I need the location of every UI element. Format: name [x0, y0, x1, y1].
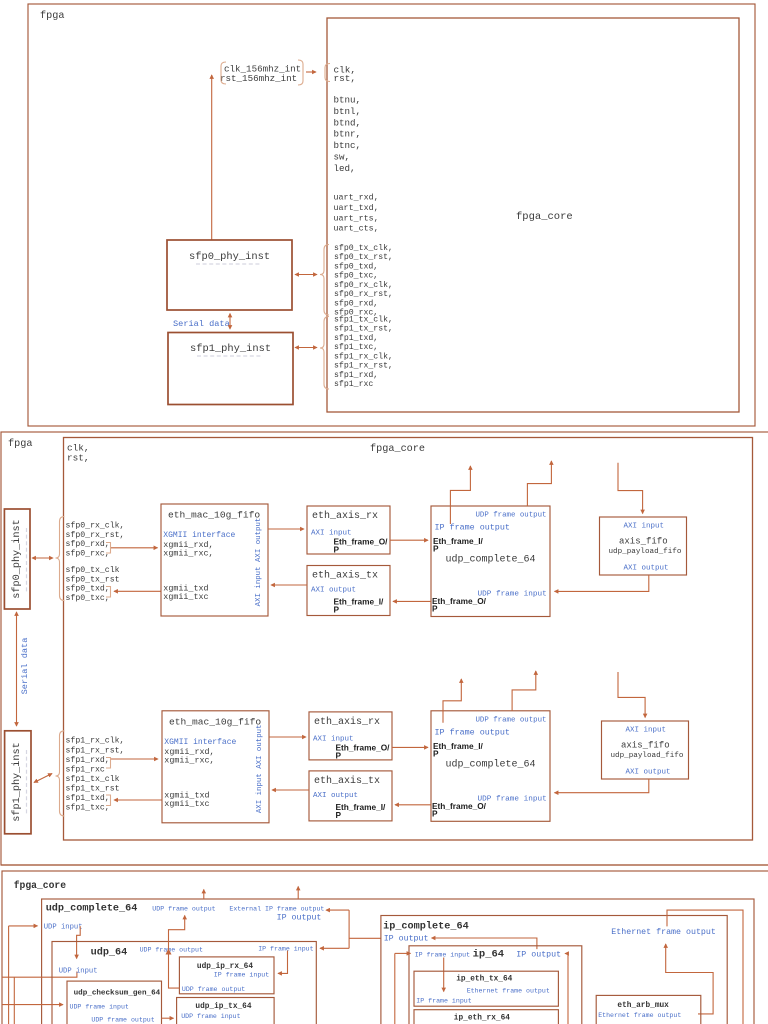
brace sfp0 signals (middle)	[56, 517, 65, 601]
svg-text:btnu,: btnu,	[334, 95, 362, 106]
wire to ip_complete IP output	[349, 937, 381, 939]
wire sfp0 rxd/rxc to eth_mac xgmii_rxd	[111, 547, 158, 549]
svg-text:Ethernet frame output: Ethernet frame output	[598, 1012, 681, 1019]
outer box fpga (top diagram)	[28, 4, 755, 426]
wire ip_64 IP output to ip_complete IP output	[432, 938, 537, 949]
wire into udp_64 IP frame input	[320, 947, 349, 949]
wire udp_complete UDP frame output up	[527, 461, 551, 506]
wire udp_complete2 UDP frame output up	[512, 671, 536, 711]
block udp_complete_64 (lower)	[431, 711, 550, 822]
svg-text:sfp1_rx_clk,: sfp1_rx_clk,	[334, 351, 393, 361]
svg-text:Ethernet frame output: Ethernet frame output	[467, 987, 550, 994]
svg-text:sfp0_tx_clk,: sfp0_tx_clk,	[334, 243, 393, 253]
block eth_axis_tx (upper)	[307, 566, 390, 616]
svg-text:sfp0_tx_rst: sfp0_tx_rst	[66, 574, 120, 584]
svg-text:udp_64: udp_64	[91, 947, 128, 959]
svg-text:udp_payload_fifo: udp_payload_fifo	[609, 548, 682, 556]
wire eth_mac2 xgmii_txd to sfp1 txd/txc	[114, 799, 162, 801]
wire axis_fifo2 AXI output to udp2 UDP frame input	[555, 779, 649, 793]
wire sfp0_phy_inst to sfp0 ports (double arrow)	[295, 274, 317, 276]
svg-text:btnl,: btnl,	[334, 106, 362, 117]
svg-text:Serial data: Serial data	[20, 638, 30, 695]
svg-text:sfp0_txd,: sfp0_txd,	[334, 261, 378, 271]
outer box fpga_core (bottom diagram)	[2, 871, 768, 1024]
svg-text:AXI output: AXI output	[313, 792, 358, 800]
wire serial data between phys (double arrow)	[229, 314, 231, 330]
svg-text:rst,: rst,	[67, 453, 90, 464]
svg-text:fpga: fpga	[40, 10, 64, 22]
svg-text:AXI input AXI output: AXI input AXI output	[256, 724, 264, 813]
svg-text:IP output: IP output	[516, 951, 561, 960]
block ip_complete_64	[381, 916, 727, 1024]
svg-text:IP frame input: IP frame input	[214, 971, 269, 978]
rail down from UDP input wire	[8, 926, 10, 1024]
svg-text:sfp1_rxd,: sfp1_rxd,	[334, 370, 378, 380]
wire eth_mac axi to eth_axis_rx	[268, 528, 304, 530]
outer box fpga (middle diagram)	[1, 432, 768, 865]
wire clk_156mhz to fpga_core clk/rst	[306, 71, 316, 73]
svg-text:ip_eth_rx_64: ip_eth_rx_64	[454, 1014, 510, 1022]
svg-text:sfp0_rxd,: sfp0_rxd,	[66, 539, 110, 549]
svg-text:Eth_frame_I/: Eth_frame_I/	[336, 802, 386, 812]
svg-text:ip_complete_64: ip_complete_64	[383, 921, 469, 933]
wire eth_axis_tx2 axi to eth_mac2	[272, 789, 309, 791]
svg-text:uart_cts,: uart_cts,	[334, 224, 379, 234]
block eth_axis_rx (upper)	[307, 506, 390, 554]
svg-text:Eth_frame_O/: Eth_frame_O/	[336, 742, 391, 752]
svg-text:Eth_frame_O/: Eth_frame_O/	[334, 537, 389, 547]
svg-text:sfp0_phy_inst: sfp0_phy_inst	[189, 251, 270, 263]
svg-text:eth_axis_rx: eth_axis_rx	[314, 716, 380, 728]
svg-text:sfp0_rxd,: sfp0_rxd,	[334, 298, 378, 308]
svg-text:sfp1_rxd,: sfp1_rxd,	[66, 755, 110, 765]
svg-text:sfp1_rx_rst,: sfp1_rx_rst,	[334, 361, 393, 371]
wire eth_arb_mux output up to Ethernet frame output	[666, 944, 713, 1014]
bracket sfp1_txd/txc pair	[106, 795, 111, 806]
wire udp_complete IP frame output up	[450, 466, 470, 524]
svg-text:eth_mac_10g_fifo: eth_mac_10g_fifo	[168, 510, 260, 521]
svg-text:sfp0_txc,: sfp0_txc,	[66, 593, 110, 603]
block eth_arb_mux	[596, 995, 701, 1024]
svg-text:sfp1_rxc: sfp1_rxc	[66, 765, 105, 775]
svg-text:btnd,: btnd,	[334, 117, 362, 128]
block udp_ip_rx_64	[179, 957, 274, 994]
wire eth_mac xgmii_txd to sfp0 txd/txc	[114, 590, 161, 592]
brace sfp1 port group	[320, 317, 329, 390]
svg-text:btnr,: btnr,	[334, 129, 362, 140]
svg-text:sfp1_rx_rst,: sfp1_rx_rst,	[66, 745, 125, 755]
svg-text:UDP frame input: UDP frame input	[70, 1003, 129, 1010]
svg-text:eth_arb_mux: eth_arb_mux	[617, 1002, 669, 1010]
wire into udp_checksum UDP frame input	[2, 1004, 63, 1006]
wire udp_ip_rx UDP frame output up to udp_complete	[169, 916, 185, 989]
faint underline	[26, 750, 28, 814]
block eth_mac_10g_fifo (lower)	[162, 711, 269, 823]
svg-text:xgmii_rxc,: xgmii_rxc,	[164, 756, 214, 766]
svg-text:UDP frame input: UDP frame input	[478, 591, 547, 599]
brace for clk/rst ports	[325, 64, 330, 82]
svg-text:External IP frame output: External IP frame output	[229, 906, 324, 913]
svg-text:P: P	[432, 808, 438, 818]
block eth_axis_tx (lower)	[309, 771, 392, 821]
wire down into axis_fifo2 AXI input	[618, 672, 645, 718]
svg-text:sfp1_txc,: sfp1_txc,	[66, 803, 110, 813]
svg-text:axis_fifo: axis_fifo	[621, 741, 670, 751]
wire vertical IP output net	[348, 910, 350, 948]
bottom edge of middle diagram outer box	[1, 864, 768, 866]
wire udp_checksum out to udp_ip_tx	[162, 1017, 174, 1019]
brace sfp0 port group	[320, 245, 329, 316]
svg-text:axis_fifo: axis_fifo	[619, 537, 668, 547]
wire sfp0 phy to port group (double arrow)	[32, 557, 53, 559]
svg-text:P: P	[336, 750, 342, 760]
svg-text:P: P	[433, 748, 439, 758]
wire down into axis_fifo AXI input	[618, 463, 643, 514]
svg-text:sfp0_tx_clk: sfp0_tx_clk	[66, 565, 120, 575]
svg-text:udp_complete_64: udp_complete_64	[446, 554, 536, 566]
wire eth_axis_tx axi to eth_mac	[271, 584, 307, 586]
wire into UDP input	[9, 925, 38, 927]
svg-text:sfp1_tx_clk,: sfp1_tx_clk,	[334, 315, 393, 325]
svg-text:Eth_frame_O/: Eth_frame_O/	[432, 596, 487, 606]
svg-text:UDP frame input: UDP frame input	[478, 795, 547, 803]
svg-text:UDP input: UDP input	[44, 924, 83, 932]
wire from below into ip_64 IP output	[565, 954, 568, 1024]
svg-text:Serial data: Serial data	[173, 319, 230, 329]
wire External IP frame output up out of udp_complete	[297, 887, 299, 900]
wire axis_fifo AXI output to udp UDP frame input	[555, 575, 649, 591]
box fpga_core (top diagram)	[327, 18, 739, 412]
svg-text:xgmii_txc: xgmii_txc	[163, 592, 208, 602]
svg-text:sfp1_tx_clk: sfp1_tx_clk	[66, 774, 120, 784]
block udp_checksum_gen_64	[67, 981, 162, 1024]
block ip_eth_tx_64	[414, 971, 558, 1006]
svg-text:IP frame input: IP frame input	[258, 946, 313, 953]
bracket sfp0_txd/txc pair	[106, 587, 111, 598]
block udp_ip_tx_64	[177, 998, 275, 1024]
faint underline	[197, 355, 263, 357]
svg-text:eth_axis_tx: eth_axis_tx	[312, 570, 378, 582]
svg-text:sfp0_rx_rst,: sfp0_rx_rst,	[334, 289, 393, 299]
svg-text:eth_axis_rx: eth_axis_rx	[312, 510, 378, 522]
svg-text:uart_txd,: uart_txd,	[334, 203, 379, 213]
rail 2 down	[13, 977, 15, 1024]
svg-text:xgmii_txc: xgmii_txc	[164, 799, 209, 809]
svg-text:led,: led,	[334, 163, 356, 174]
block axis_fifo (upper)	[600, 517, 687, 575]
svg-text:IP frame input: IP frame input	[416, 997, 471, 1004]
wire eth_axis_rx Eth_frame_O to udp_complete	[390, 539, 428, 541]
svg-text:IP frame output: IP frame output	[435, 523, 510, 533]
svg-text:AXI output: AXI output	[626, 769, 671, 777]
svg-text:XGMII interface: XGMII interface	[164, 738, 236, 747]
faint underline	[196, 263, 262, 265]
box fpga_core (middle)	[64, 438, 753, 841]
block udp_64	[52, 942, 316, 1024]
svg-text:sfp0_rx_rst,: sfp0_rx_rst,	[66, 530, 125, 540]
svg-text:udp_checksum_gen_64: udp_checksum_gen_64	[74, 989, 161, 997]
svg-text:UDP frame output: UDP frame output	[476, 716, 547, 724]
wire sfp1 phy to port group (diagonal double arrow)	[34, 774, 52, 783]
svg-text:sfp1_phy_inst: sfp1_phy_inst	[190, 343, 271, 355]
brace right of clk_156mhz pair	[298, 60, 303, 85]
svg-text:fpga: fpga	[8, 438, 32, 450]
svg-text:fpga_core: fpga_core	[370, 443, 425, 455]
svg-text:P: P	[336, 810, 342, 820]
wire udp_complete2 Eth_frame_O to eth_axis_tx2	[395, 804, 431, 806]
svg-text:sfp0_txd,: sfp0_txd,	[66, 584, 110, 594]
svg-text:sw,: sw,	[334, 152, 351, 163]
svg-text:Eth_frame_I/: Eth_frame_I/	[433, 741, 483, 751]
block udp_complete_64 (bottom)	[42, 899, 754, 1024]
svg-text:sfp1_tx_rst,: sfp1_tx_rst,	[334, 324, 393, 334]
svg-text:UDP frame input: UDP frame input	[181, 1013, 240, 1020]
svg-text:IP output: IP output	[384, 935, 429, 944]
svg-text:btnc,: btnc,	[334, 140, 362, 151]
svg-text:P: P	[334, 545, 340, 555]
wire IP frame input down into udp_ip_rx	[278, 951, 288, 974]
wire from left into udp_64 UDP input (below)	[2, 972, 77, 978]
svg-text:P: P	[334, 605, 340, 615]
block udp_complete_64 (upper)	[431, 506, 550, 617]
wire udp_complete Eth_frame_O to eth_axis_tx	[393, 600, 431, 602]
wire serial data between phys (double arrow, middle)	[16, 612, 18, 726]
block ip_64	[409, 946, 582, 1024]
wire ip_64 IP frame input down to ip_eth_tx	[443, 958, 445, 992]
svg-text:AXI input: AXI input	[624, 523, 665, 531]
block sfp1_phy_inst (middle, vertical)	[5, 731, 31, 834]
svg-text:udp_complete_64: udp_complete_64	[46, 903, 138, 915]
svg-text:sfp1_rx_clk,: sfp1_rx_clk,	[66, 736, 125, 746]
wire UDP input down to udp_64 UDP input	[77, 926, 81, 958]
svg-text:uart_rts,: uart_rts,	[334, 213, 379, 223]
svg-text:Eth_frame_I/: Eth_frame_I/	[334, 597, 384, 607]
wire Ethernet frame output route right/down	[667, 910, 743, 1024]
block eth_mac_10g_fifo (upper)	[161, 504, 268, 616]
svg-text:IP frame output: IP frame output	[435, 727, 510, 737]
wire UDP frame output up out of udp_complete	[203, 890, 205, 900]
svg-text:UDP frame output: UDP frame output	[91, 1016, 154, 1023]
wire into udp_complete IP output	[326, 909, 349, 911]
svg-text:sfp0_rx_clk,: sfp0_rx_clk,	[334, 280, 393, 290]
svg-text:sfp0_phy_inst: sfp0_phy_inst	[11, 519, 23, 598]
svg-text:IP frame input: IP frame input	[415, 952, 470, 959]
block sfp0_phy_inst (middle, vertical)	[4, 509, 30, 609]
wire udp_complete2 IP frame output up	[443, 679, 461, 723]
block axis_fifo (lower)	[602, 721, 689, 779]
svg-text:AXI input AXI output: AXI input AXI output	[255, 518, 263, 607]
svg-text:sfp1_txc,: sfp1_txc,	[334, 342, 378, 352]
svg-text:ip_64: ip_64	[473, 949, 505, 961]
svg-text:udp_complete_64: udp_complete_64	[446, 758, 536, 770]
svg-text:UDP frame output: UDP frame output	[182, 986, 245, 993]
rail down from ip_64 IP frame input	[394, 953, 396, 1024]
wire eth_mac2 axi to eth_axis_rx2	[269, 736, 306, 738]
bracket sfp0_rxd/rxc pair	[106, 543, 111, 554]
svg-text:sfp1_txd,: sfp1_txd,	[66, 793, 110, 803]
svg-text:Eth_frame_I/: Eth_frame_I/	[433, 536, 483, 546]
svg-text:P: P	[433, 544, 439, 554]
wire into ip_64 IP frame input	[395, 952, 411, 954]
svg-text:sfp1_tx_rst: sfp1_tx_rst	[66, 783, 120, 793]
svg-text:P: P	[432, 604, 438, 614]
svg-text:udp_ip_tx_64: udp_ip_tx_64	[195, 1003, 251, 1011]
svg-text:udp_ip_rx_64: udp_ip_rx_64	[197, 963, 253, 971]
brace left of clk_156mhz pair	[221, 62, 226, 84]
svg-text:sfp1_txd,: sfp1_txd,	[334, 333, 378, 343]
faint underline	[26, 528, 28, 592]
svg-text:Ethernet frame output: Ethernet frame output	[611, 927, 716, 937]
svg-text:sfp1_phy_inst: sfp1_phy_inst	[11, 742, 23, 821]
svg-text:eth_mac_10g_fifo: eth_mac_10g_fifo	[169, 716, 261, 727]
block eth_axis_rx (lower)	[309, 712, 392, 760]
svg-text:AXI output: AXI output	[311, 587, 356, 595]
block sfp0_phy_inst (top)	[167, 240, 292, 310]
brace sfp1 signals (middle)	[56, 731, 65, 816]
svg-text:xgmii_rxc,: xgmii_rxc,	[163, 549, 213, 559]
svg-text:UDP frame output: UDP frame output	[140, 947, 203, 954]
svg-text:fpga_core: fpga_core	[14, 880, 67, 891]
svg-text:rst_156mhz_int: rst_156mhz_int	[220, 73, 297, 84]
svg-text:udp_payload_fifo: udp_payload_fifo	[611, 752, 684, 760]
svg-text:sfp0_tx_rst,: sfp0_tx_rst,	[334, 252, 393, 262]
svg-text:ip_eth_tx_64: ip_eth_tx_64	[456, 976, 512, 984]
svg-text:uart_rxd,: uart_rxd,	[334, 193, 379, 203]
svg-text:UDP input: UDP input	[59, 967, 98, 975]
svg-text:UDP frame output: UDP frame output	[476, 512, 547, 520]
block ip_eth_rx_64	[414, 1010, 558, 1024]
svg-text:sfp0_rx_clk,: sfp0_rx_clk,	[66, 521, 125, 531]
block sfp1_phy_inst (top)	[168, 333, 293, 405]
wire eth_axis_rx2 Eth_frame_O to udp_complete2	[392, 746, 428, 748]
svg-text:sfp0_txc,: sfp0_txc,	[334, 271, 378, 281]
svg-text:AXI output: AXI output	[624, 565, 669, 573]
svg-text:eth_axis_tx: eth_axis_tx	[314, 775, 380, 787]
wire sfp1 rxd/rxc to eth_mac2 xgmii_rxd	[111, 758, 158, 760]
svg-text:fpga_core: fpga_core	[516, 211, 573, 223]
wire sfp1_phy_inst to sfp1 ports (double arrow)	[295, 347, 317, 349]
svg-text:IP output: IP output	[277, 914, 322, 923]
svg-text:sfp1_rxc: sfp1_rxc	[334, 379, 373, 389]
svg-text:AXI input: AXI input	[626, 727, 667, 735]
svg-text:XGMII interface: XGMII interface	[163, 531, 235, 540]
svg-text:UDP frame output: UDP frame output	[152, 906, 215, 913]
svg-text:sfp0_rxc,: sfp0_rxc,	[66, 548, 110, 558]
svg-text:rst,: rst,	[334, 73, 357, 84]
svg-text:Eth_frame_O/: Eth_frame_O/	[432, 801, 487, 811]
bracket sfp1_rxd/rxc pair	[106, 758, 111, 769]
wire sfp0_phy_inst up to clk_156mhz	[211, 75, 213, 240]
